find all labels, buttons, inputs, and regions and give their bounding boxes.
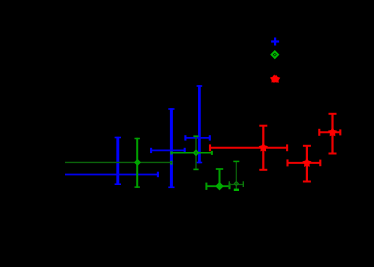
- red point R3 horizontal errorbar: [319, 129, 340, 136]
- blue point B3 vertical errorbar: [197, 85, 203, 163]
- blue point B2 vertical errorbar: [168, 108, 174, 188]
- green point G3 horizontal errorbar: [206, 183, 229, 190]
- legend blue plus marker: [271, 38, 279, 46]
- blue point B2 horizontal errorbar: [151, 148, 185, 153]
- legend red star marker: [270, 75, 280, 83]
- red point R2 vertical errorbar: [303, 145, 311, 182]
- blue point B3 horizontal errorbar: [185, 135, 209, 140]
- red point R1 horizontal errorbar: [210, 144, 287, 151]
- green point G4 diamond marker: [234, 182, 238, 186]
- green point G1 diamond marker: [135, 160, 140, 165]
- green point G2 diamond marker: [194, 151, 199, 156]
- green point G4 vertical errorbar: [233, 161, 239, 190]
- red point R3 vertical errorbar: [329, 113, 337, 153]
- blue point B1 horizontal errorbar: [65, 172, 158, 178]
- green point G2 horizontal errorbar: [171, 151, 212, 155]
- green point G1 horizontal errorbar: [65, 161, 172, 163]
- red point R3 star marker: [328, 127, 337, 136]
- legend green diamond marker: [272, 51, 279, 58]
- green point G1 vertical errorbar: [135, 138, 140, 188]
- red point R1 star marker: [259, 143, 268, 152]
- blue point B1 vertical errorbar: [115, 137, 121, 185]
- green point G4 horizontal errorbar: [229, 181, 243, 187]
- red point R1 vertical errorbar: [259, 125, 267, 170]
- green point G3 vertical errorbar (upper only): [216, 169, 223, 187]
- green point G3 filled diamond marker: [216, 183, 223, 190]
- red point R2 star marker: [302, 158, 311, 167]
- red point R2 horizontal errorbar: [288, 159, 321, 166]
- green point G1 right cap (peeks around blue bar): [170, 161, 172, 165]
- green point G2 vertical errorbar: [193, 136, 198, 169]
